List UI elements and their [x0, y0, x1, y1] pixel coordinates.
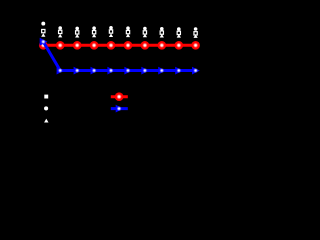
red line series with circle markers: [39, 41, 200, 50]
legend column 1: square: [44, 95, 48, 99]
white hollow square series (markers): [42, 29, 198, 35]
legend column 1: triangle: [44, 119, 48, 123]
white triangle series (markers): [41, 33, 198, 38]
blue line series with right-triangle markers: [40, 38, 200, 75]
legend column 1: circle: [44, 106, 48, 110]
chart: dark scatter/line plot: [0, 0, 204, 156]
legend column 2: red entry: [111, 92, 128, 101]
white dot series (markers): [41, 22, 197, 31]
legend column 2: blue entry: [111, 105, 128, 113]
